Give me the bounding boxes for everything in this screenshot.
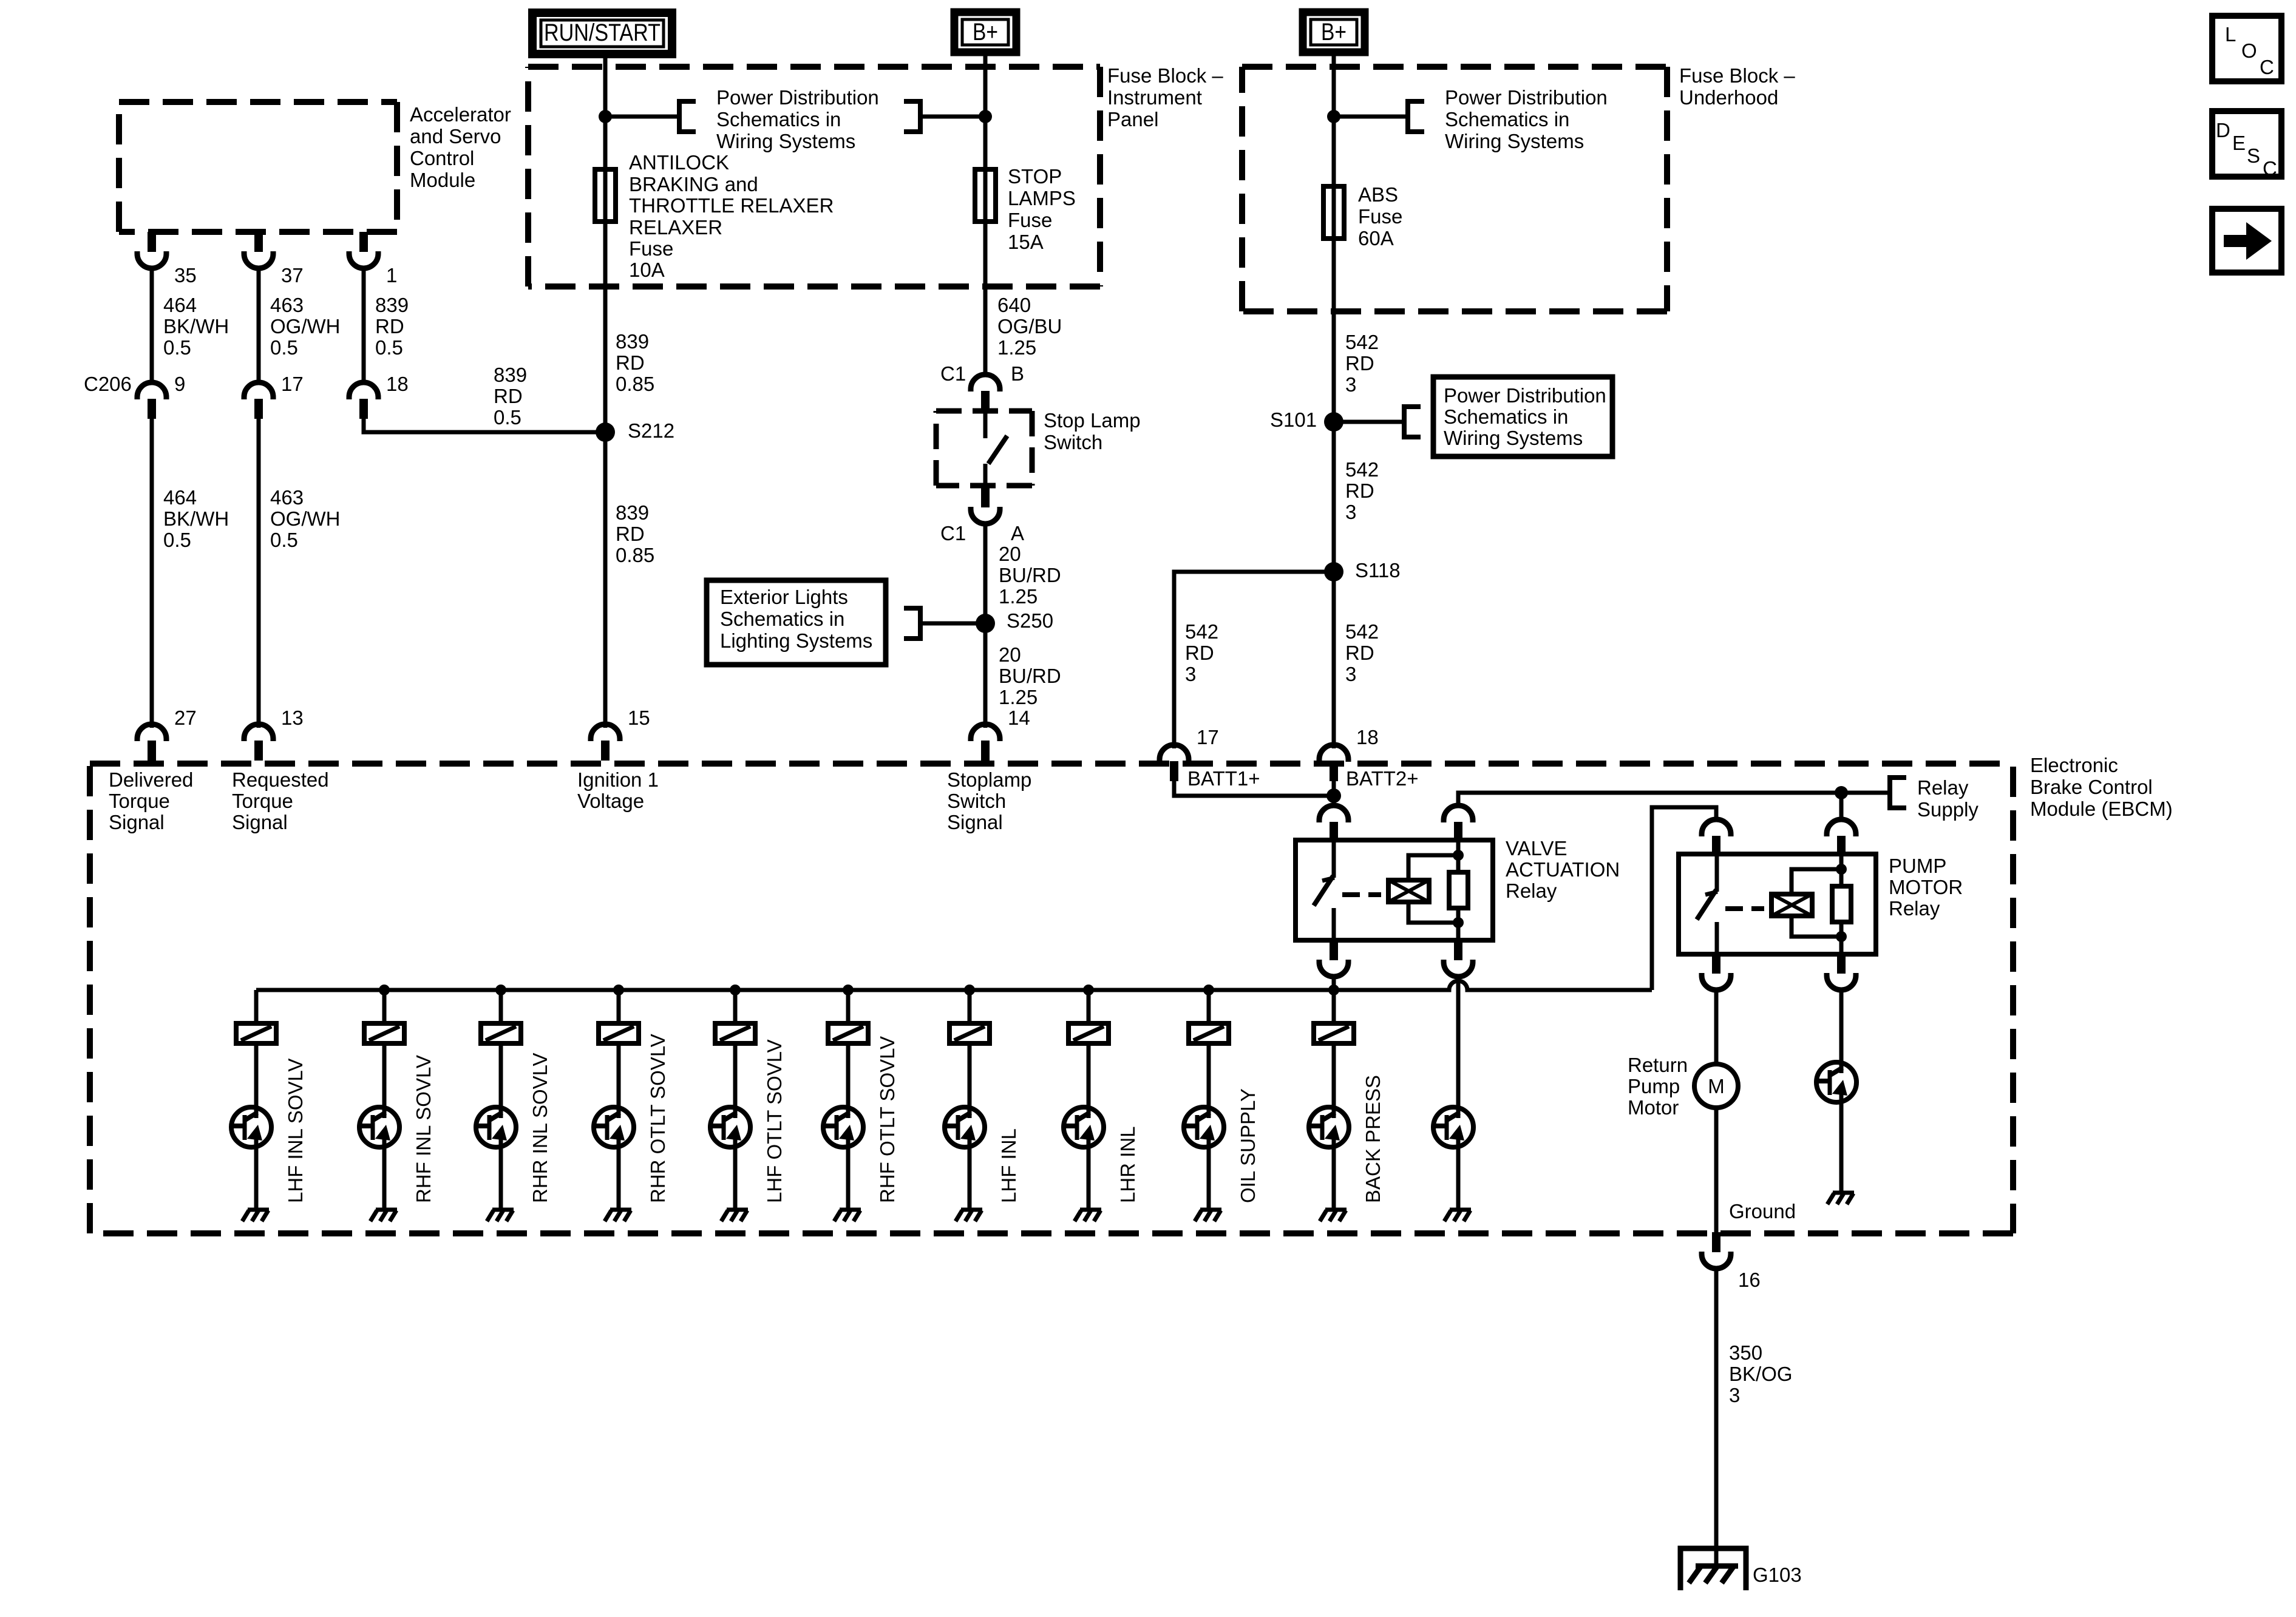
connector EBCM pin 14: [971, 724, 1000, 761]
solenoid branch LHF INL: [968, 990, 972, 1209]
solid box: Exterior Lights Schematics in Lighting Systems: [707, 580, 886, 665]
ground RHF OTLT SOVLV: [834, 1210, 861, 1221]
valve relay coil driver branch: [1456, 1146, 1461, 1209]
node bus branch OIL SUPPLY: [1203, 985, 1214, 995]
connector pump relay coil pin (top): [1827, 819, 1856, 856]
connector C1 pin B: [971, 375, 1000, 411]
svg-text:B+: B+: [1321, 19, 1347, 46]
solenoid branch BACK PRESS: [1332, 1041, 1336, 1209]
transistor driver LHF INL: [943, 1106, 985, 1148]
node bus branch RHF OTLT: [843, 985, 854, 995]
icon DESC box: [2212, 111, 2281, 180]
svg-text:14: 14: [1008, 707, 1030, 729]
wire valve relay output to solenoid bus and BACK PRESS branch: [1332, 974, 1336, 1026]
connector EBCM pin 13: [244, 724, 273, 761]
solid box: Power Distribution Schematics in Wiring Systems: [1433, 377, 1612, 456]
node bus branch LHF OTLT: [730, 985, 741, 995]
svg-text:S: S: [2247, 144, 2260, 167]
svg-text:C1: C1: [940, 522, 966, 544]
wire pin 37 to C206: [257, 266, 261, 384]
svg-text:16: 16: [1738, 1269, 1761, 1291]
node bus branch RHF INL: [379, 985, 390, 995]
connector EBCM pin 27: [137, 724, 166, 761]
svg-text:D: D: [2216, 119, 2230, 141]
ground valve relay driver: [1444, 1210, 1471, 1221]
dashed box: Fuse Block - Instrument Panel: [528, 67, 1100, 286]
connector pin 35 at module: [137, 232, 166, 268]
ground RHF INL SOVLV: [370, 1210, 397, 1221]
svg-text:S101: S101: [1270, 408, 1317, 431]
solenoid branch LHF INL SOVLV: [254, 990, 259, 1209]
coil LHF INL SOVLV: [236, 1023, 276, 1043]
wire C206 pin 18 to S212 (down and right): [364, 418, 604, 432]
relay VALVE ACTUATION: [1296, 840, 1493, 940]
svg-text:BACK PRESS: BACK PRESS: [1362, 1075, 1384, 1203]
svg-text:RUN/START: RUN/START: [544, 19, 661, 46]
wire S118 branch to EBCM pin 17: [1174, 572, 1334, 748]
connector EBCM pin 17: [1160, 745, 1189, 781]
wire B+ instrument panel to stop lamps fuse: [983, 52, 988, 376]
wire BATT2+ pin 18 down to relay feed: [1332, 781, 1336, 807]
svg-text:1: 1: [386, 264, 397, 286]
solenoid branch RHR INL SOVLV: [499, 990, 503, 1209]
dashed box: Electronic Brake Control Module (EBCM): [90, 764, 2013, 1233]
ground pump relay driver: [1827, 1193, 1854, 1204]
connector C206 pin 17: [244, 382, 273, 419]
solenoid branch RHF INL SOVLV: [382, 990, 387, 1209]
solenoid branch OIL SUPPLY: [1207, 990, 1211, 1209]
bracket pointer (S101 power distribution): [1402, 404, 1421, 439]
connector valve relay coil pin (top): [1444, 805, 1473, 842]
transistor driver pump relay coil: [1815, 1061, 1856, 1103]
transistor driver RHR OTLT SOVLV: [593, 1106, 634, 1148]
svg-text:17: 17: [1197, 726, 1219, 748]
splice node S101: [1324, 412, 1343, 432]
wire C206 pin 9 to EBCM pin 27: [150, 418, 154, 728]
bracket pointer (exterior lights): [904, 606, 922, 641]
svg-text:C1: C1: [940, 362, 966, 385]
svg-text:OIL SUPPLY: OIL SUPPLY: [1237, 1088, 1259, 1203]
node on ignition wire at power distribution tap: [599, 110, 612, 123]
wire pump driver to ground: [1839, 1101, 1844, 1192]
dashed box: Fuse Block - Underhood: [1242, 67, 1667, 311]
connector EBCM pin 16: [1702, 1232, 1731, 1269]
coil RHF OTLT SOVLV: [828, 1023, 868, 1043]
wire valve relay coil return to driver (crosses bus): [1456, 974, 1461, 1107]
svg-text:S212: S212: [628, 419, 674, 442]
stop lamp switch contacts and blade: [985, 413, 1007, 489]
coil OIL SUPPLY: [1189, 1023, 1229, 1043]
svg-text:13: 13: [281, 707, 304, 729]
ground OIL SUPPLY: [1195, 1210, 1221, 1221]
solenoid branch RHF OTLT SOVLV: [846, 990, 851, 1209]
connector pump relay switch output (bottom): [1702, 954, 1731, 990]
svg-text:B+: B+: [973, 19, 998, 46]
svg-text:15: 15: [628, 707, 650, 729]
svg-text:18: 18: [386, 373, 409, 395]
wire C206 pin 17 to EBCM pin 13: [257, 418, 261, 728]
fuse ABS 60A: [1323, 186, 1344, 239]
svg-text:LHF INL: LHF INL: [997, 1128, 1020, 1203]
node bus branch BACK PRESS: [1328, 985, 1339, 995]
splice node S212: [596, 422, 615, 442]
bracket pointer right (power distribution schematics): [904, 99, 922, 134]
power symbol box B+ (underhood): [1303, 12, 1365, 52]
coil RHR OTLT SOVLV: [599, 1023, 639, 1043]
relay PUMP MOTOR: [1679, 854, 1876, 954]
svg-text:E: E: [2232, 132, 2246, 154]
node on underhood wire at power distribution tap: [1327, 110, 1340, 123]
svg-text:A: A: [1011, 522, 1024, 544]
bracket pointer Relay Supply: [1888, 775, 1906, 810]
transistor driver LHR INL: [1062, 1106, 1104, 1148]
svg-text:BATT2+: BATT2+: [1346, 767, 1419, 790]
svg-text:RHR OTLT SOVLV: RHR OTLT SOVLV: [647, 1034, 669, 1203]
svg-text:17: 17: [281, 373, 304, 395]
coil LHR INL: [1068, 1023, 1109, 1043]
connector C1 pin A: [971, 487, 1000, 524]
bracket pointer (underhood power distribution): [1406, 99, 1424, 134]
connector pump relay coil return (bottom): [1827, 954, 1856, 990]
svg-text:LHR INL: LHR INL: [1116, 1126, 1139, 1203]
fuse ANTILOCK BRAKING and THROTTLE RELAXER RELAXER 10A: [595, 169, 616, 222]
svg-text:RHF INL SOVLV: RHF INL SOVLV: [412, 1055, 435, 1203]
transistor driver LHF OTLT SOVLV: [709, 1106, 750, 1148]
wire RUN/START to ignition column: [603, 54, 608, 728]
node bus branch RHR OTLT: [613, 985, 624, 995]
connector valve relay coil return (bottom): [1444, 940, 1473, 977]
power symbol box B+ (instrument panel): [954, 12, 1016, 52]
svg-text:Ground: Ground: [1729, 1200, 1796, 1222]
wire valve relay coil pin to relay supply rail: [1458, 793, 1888, 807]
motor M return pump motor: [1694, 1064, 1738, 1108]
svg-text:LHF OTLT SOVLV: LHF OTLT SOVLV: [763, 1039, 786, 1203]
connector valve relay switch output (bottom): [1319, 940, 1348, 977]
node bus branch LHF INL: [964, 985, 975, 995]
wire pump relay coil return to driver: [1839, 988, 1844, 1062]
coil BACK PRESS: [1314, 1023, 1354, 1043]
svg-text:C: C: [2263, 157, 2277, 180]
connector valve relay switch pin (top): [1319, 805, 1348, 842]
connector EBCM pin 15: [591, 724, 620, 761]
connector C206 pin 9: [137, 382, 166, 419]
coil LHF OTLT SOVLV: [715, 1023, 755, 1043]
wire pin 35 to C206: [150, 266, 154, 384]
dashed box: Accelerator and Servo Control Module: [119, 102, 397, 232]
svg-text:9: 9: [174, 373, 185, 395]
svg-text:RHF OTLT SOVLV: RHF OTLT SOVLV: [876, 1036, 898, 1203]
solenoid branch LHR INL: [1087, 990, 1091, 1209]
ground LHF INL SOVLV: [242, 1210, 269, 1221]
wire BATT1+ pin 17 to BATT2+ junction: [1174, 781, 1334, 796]
dashed box: Stop Lamp Switch: [936, 411, 1032, 486]
svg-text:37: 37: [281, 264, 304, 286]
wire bracket to S250: [920, 622, 984, 626]
svg-text:C206: C206: [84, 373, 132, 395]
coil RHR INL SOVLV: [481, 1023, 521, 1043]
svg-text:S250: S250: [1007, 609, 1053, 632]
svg-text:G103: G103: [1753, 1564, 1802, 1586]
connector pin 1 at module: [349, 232, 378, 268]
coil LHF INL: [949, 1023, 990, 1043]
wire pin 1 to C206: [362, 266, 366, 384]
wire bracket to stop lamps fuse wire: [922, 115, 985, 119]
wire B+ underhood to ABS fuse and S101: [1332, 52, 1336, 748]
connector C206 pin 18: [349, 382, 378, 419]
splice node S118: [1324, 562, 1343, 581]
connector pump relay switch pin (top): [1702, 819, 1731, 856]
node relay supply to pump coil: [1835, 786, 1848, 799]
power symbol box RUN/START: [532, 13, 672, 54]
wire pin 16 to G103: [1714, 1266, 1719, 1567]
node BATT junction: [1326, 788, 1341, 803]
svg-text:B: B: [1011, 362, 1024, 385]
node bus branch LHR INL: [1083, 985, 1094, 995]
ground BACK PRESS: [1320, 1210, 1347, 1221]
connector EBCM pin 18: [1319, 745, 1348, 781]
svg-text:27: 27: [174, 707, 197, 729]
transistor driver OIL SUPPLY: [1183, 1106, 1224, 1148]
wire pump relay output to return pump motor: [1714, 988, 1719, 1065]
fuse STOP LAMPS 15A: [975, 169, 996, 222]
transistor driver RHF OTLT SOVLV: [822, 1106, 863, 1148]
svg-text:ReturnPumpMotor: ReturnPumpMotor: [1628, 1054, 1688, 1119]
svg-text:LHF INL SOVLV: LHF INL SOVLV: [284, 1059, 307, 1203]
icon LOC box: [2212, 16, 2281, 81]
wire solenoid bus feed to pump relay switch pin: [1652, 807, 1716, 990]
ground LHR INL: [1075, 1210, 1101, 1221]
icon arrow box: [2212, 209, 2281, 273]
svg-text:35: 35: [174, 264, 197, 286]
svg-text:Fuse Block –Underhood: Fuse Block –Underhood: [1679, 64, 1795, 109]
ground LHF INL: [956, 1210, 982, 1221]
transistor driver valve relay coil: [1432, 1106, 1473, 1148]
transistor driver RHR INL SOVLV: [475, 1106, 516, 1148]
node on stop lamps wire at power distribution tap: [979, 110, 992, 123]
svg-text:L: L: [2225, 23, 2236, 46]
bracket pointer left (power distribution schematics): [678, 99, 696, 134]
svg-text:C: C: [2260, 56, 2274, 78]
wire C1-A to EBCM pin 14: [983, 522, 988, 728]
solenoid branch RHR OTLT SOVLV: [617, 990, 621, 1209]
solenoid branch LHF OTLT SOVLV: [733, 990, 738, 1209]
svg-text:18: 18: [1356, 726, 1379, 748]
svg-text:M: M: [1708, 1075, 1725, 1097]
node bus branch RHR INL: [495, 985, 506, 995]
ground G103: [1680, 1548, 1746, 1590]
connector pin 37 at module: [244, 232, 273, 268]
ground LHF OTLT SOVLV: [721, 1210, 748, 1221]
wire tap to bracket (power distribution, left): [605, 115, 678, 119]
solenoid supply bus: [256, 981, 1652, 990]
wire S101 to bracket: [1334, 420, 1402, 424]
splice node S250: [976, 614, 995, 633]
coil RHF INL SOVLV: [364, 1023, 404, 1043]
wire pump relay coil pin from rail: [1839, 793, 1844, 821]
transistor driver LHF INL SOVLV: [230, 1106, 271, 1148]
svg-text:S118: S118: [1355, 559, 1401, 581]
svg-text:BATT1+: BATT1+: [1187, 767, 1260, 790]
transistor driver RHF INL SOVLV: [358, 1106, 399, 1148]
ground RHR INL SOVLV: [487, 1210, 514, 1221]
svg-text:O: O: [2241, 39, 2257, 62]
ground RHR OTLT SOVLV: [605, 1210, 631, 1221]
wire tap to bracket (underhood power distribution): [1334, 115, 1406, 119]
wire motor to ground pin 16: [1714, 1108, 1719, 1233]
svg-text:RHR INL SOVLV: RHR INL SOVLV: [529, 1053, 551, 1203]
transistor driver BACK PRESS: [1308, 1106, 1349, 1148]
